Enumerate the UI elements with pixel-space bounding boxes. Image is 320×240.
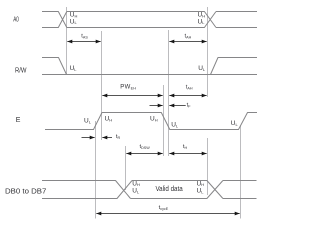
svg-text:tAH: tAH [185,33,192,39]
svg-text:UL: UL [70,18,78,25]
svg-text:tcycE: tcycE [159,205,169,211]
svg-text:Valid data: Valid data [156,186,183,193]
svg-text:E: E [16,117,21,124]
svg-text:UL: UL [231,120,239,127]
svg-text:R/W: R/W [15,67,27,74]
svg-text:UL: UL [171,122,179,129]
svg-text:tR: tR [116,134,121,140]
svg-text:tAS: tAS [81,33,88,39]
svg-text:tDSW: tDSW [140,144,151,150]
svg-text:PWEH: PWEH [120,85,136,91]
svg-text:tH: tH [183,144,188,150]
svg-text:UH: UH [150,116,158,123]
svg-text:tF: tF [187,103,192,109]
svg-text:UL: UL [198,18,206,25]
svg-text:UL: UL [70,65,78,72]
svg-text:UH: UH [197,180,205,187]
svg-text:UH: UH [132,180,140,187]
svg-text:tAH: tAH [186,85,193,91]
svg-text:UL: UL [132,188,140,195]
svg-text:A0: A0 [13,16,19,23]
svg-text:UL: UL [84,118,92,125]
svg-text:UH: UH [105,116,113,123]
svg-text:DB0 to DB7: DB0 to DB7 [5,189,47,196]
svg-text:UL: UL [197,188,205,195]
svg-text:UL: UL [198,65,206,72]
